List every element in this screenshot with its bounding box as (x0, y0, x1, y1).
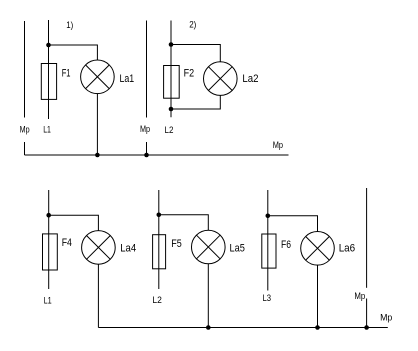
junction node (branch 3) (266, 214, 271, 219)
svg-text:Mp: Mp (354, 291, 365, 301)
lamp La5 (192, 230, 226, 264)
wire Mp right vertical (bottom section) (366, 188, 368, 328)
junction node (branch 1) (46, 213, 51, 218)
svg-text:F4: F4 (62, 237, 72, 249)
junction node (La5 to bus) (206, 325, 211, 330)
svg-text:2): 2) (189, 20, 196, 30)
junction node (circuit 2 bottom) (169, 107, 174, 112)
svg-text:La4: La4 (120, 243, 136, 255)
junction node (Mp right to bus) (364, 325, 369, 330)
svg-text:F5: F5 (171, 238, 182, 250)
svg-text:F1: F1 (62, 68, 71, 80)
wire La1 bottom to bus (96, 93, 98, 155)
junction node (branch 2) (157, 213, 162, 218)
junction node (La1 to bus) (95, 153, 100, 158)
lamp La1 (81, 60, 115, 94)
svg-text:Mp: Mp (20, 124, 30, 134)
junction node (circuit 1 top) (46, 43, 51, 48)
wire L1 branch vertical bottom section (through fuse F4) (48, 190, 50, 289)
junction node (circuit 2 top) (169, 42, 174, 47)
wire bus Mp (bottom section) (98, 327, 387, 329)
wire from node to lamp La6 (268, 216, 318, 232)
lamp La4 (82, 231, 116, 265)
svg-text:L1: L1 (43, 124, 51, 134)
svg-text:Mp: Mp (140, 124, 150, 134)
svg-text:L3: L3 (263, 293, 272, 303)
svg-text:La1: La1 (120, 73, 135, 85)
wire L2 branch vertical (through fuse F2) (170, 21, 172, 118)
svg-text:Mp: Mp (380, 313, 392, 323)
junction node (Mp middle to bus) (144, 153, 149, 158)
lamp La6 (301, 232, 335, 266)
wire from node to lamp La1 (49, 45, 98, 60)
wire La4 bottom to bus (97, 264, 99, 328)
svg-text:L1: L1 (44, 295, 52, 305)
svg-text:La6: La6 (339, 243, 356, 255)
svg-text:F2: F2 (184, 68, 195, 80)
svg-text:1): 1) (66, 20, 73, 30)
wire L3 branch vertical bottom section (through fuse F6) (267, 190, 269, 291)
fuse F2 (164, 66, 180, 99)
fuse F1 (41, 64, 56, 100)
fuse F5 (153, 235, 166, 269)
wire La6 bottom to bus (317, 265, 319, 328)
svg-text:F6: F6 (281, 239, 291, 251)
wire La2 bottom loop back to L2 branch (171, 95, 220, 109)
junction node (La6 to bus) (315, 325, 320, 330)
wire bus Mp (top section) (25, 154, 289, 156)
svg-text:Mp: Mp (273, 140, 283, 150)
wire from node to lamp La5 (159, 215, 209, 231)
wire L2 branch vertical bottom section (through fuse F5) (158, 190, 160, 289)
svg-text:L2: L2 (165, 125, 174, 135)
svg-text:La5: La5 (230, 242, 245, 254)
svg-text:L2: L2 (152, 295, 162, 305)
fuse F4 (43, 234, 58, 270)
wire Mp middle vertical (circuit 2) (146, 21, 148, 156)
svg-text:La2: La2 (242, 73, 258, 85)
wire Mp left vertical (circuit 1) (24, 21, 26, 155)
wire L1 branch vertical (through fuse F1) (48, 20, 50, 119)
wire from node to lamp La4 (49, 215, 99, 231)
wire La5 bottom to bus (207, 264, 209, 328)
wire from node to lamp La2 (171, 45, 220, 63)
fuse F6 (262, 234, 276, 268)
lamp La2 (204, 62, 238, 96)
